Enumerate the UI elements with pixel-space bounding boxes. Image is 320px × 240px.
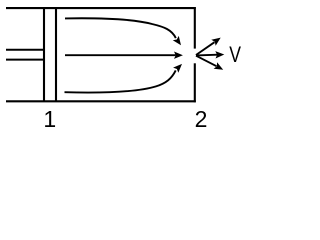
piston rod lower line bbox=[6, 59, 45, 61]
bottom streamline bbox=[65, 70, 176, 92]
svg-text:1: 1 bbox=[43, 106, 56, 131]
tank bottom wall bbox=[6, 100, 196, 102]
exit jet middle vector bbox=[196, 54, 218, 57]
exit jet lower vector bbox=[196, 56, 217, 66]
piston left face bbox=[43, 8, 45, 101]
exit jet upper vector arrowhead bbox=[211, 35, 223, 46]
tank right wall lower segment (below orifice) bbox=[194, 63, 196, 102]
top streamline bbox=[65, 18, 176, 38]
top streamline arrowhead bbox=[173, 36, 184, 48]
svg-text:V: V bbox=[229, 43, 241, 67]
tank top wall bbox=[6, 7, 196, 9]
middle streamline arrowhead bbox=[174, 52, 183, 59]
exit jet upper vector bbox=[196, 42, 215, 55]
tank right wall upper segment (above orifice) bbox=[194, 7, 196, 49]
svg-text:2: 2 bbox=[195, 106, 208, 131]
middle streamline bbox=[65, 54, 176, 56]
piston right face bbox=[55, 8, 57, 101]
exit jet lower vector arrowhead bbox=[214, 62, 225, 73]
bottom streamline arrowhead bbox=[173, 61, 185, 73]
piston rod upper line bbox=[6, 49, 45, 51]
exit jet middle vector arrowhead bbox=[215, 51, 224, 59]
